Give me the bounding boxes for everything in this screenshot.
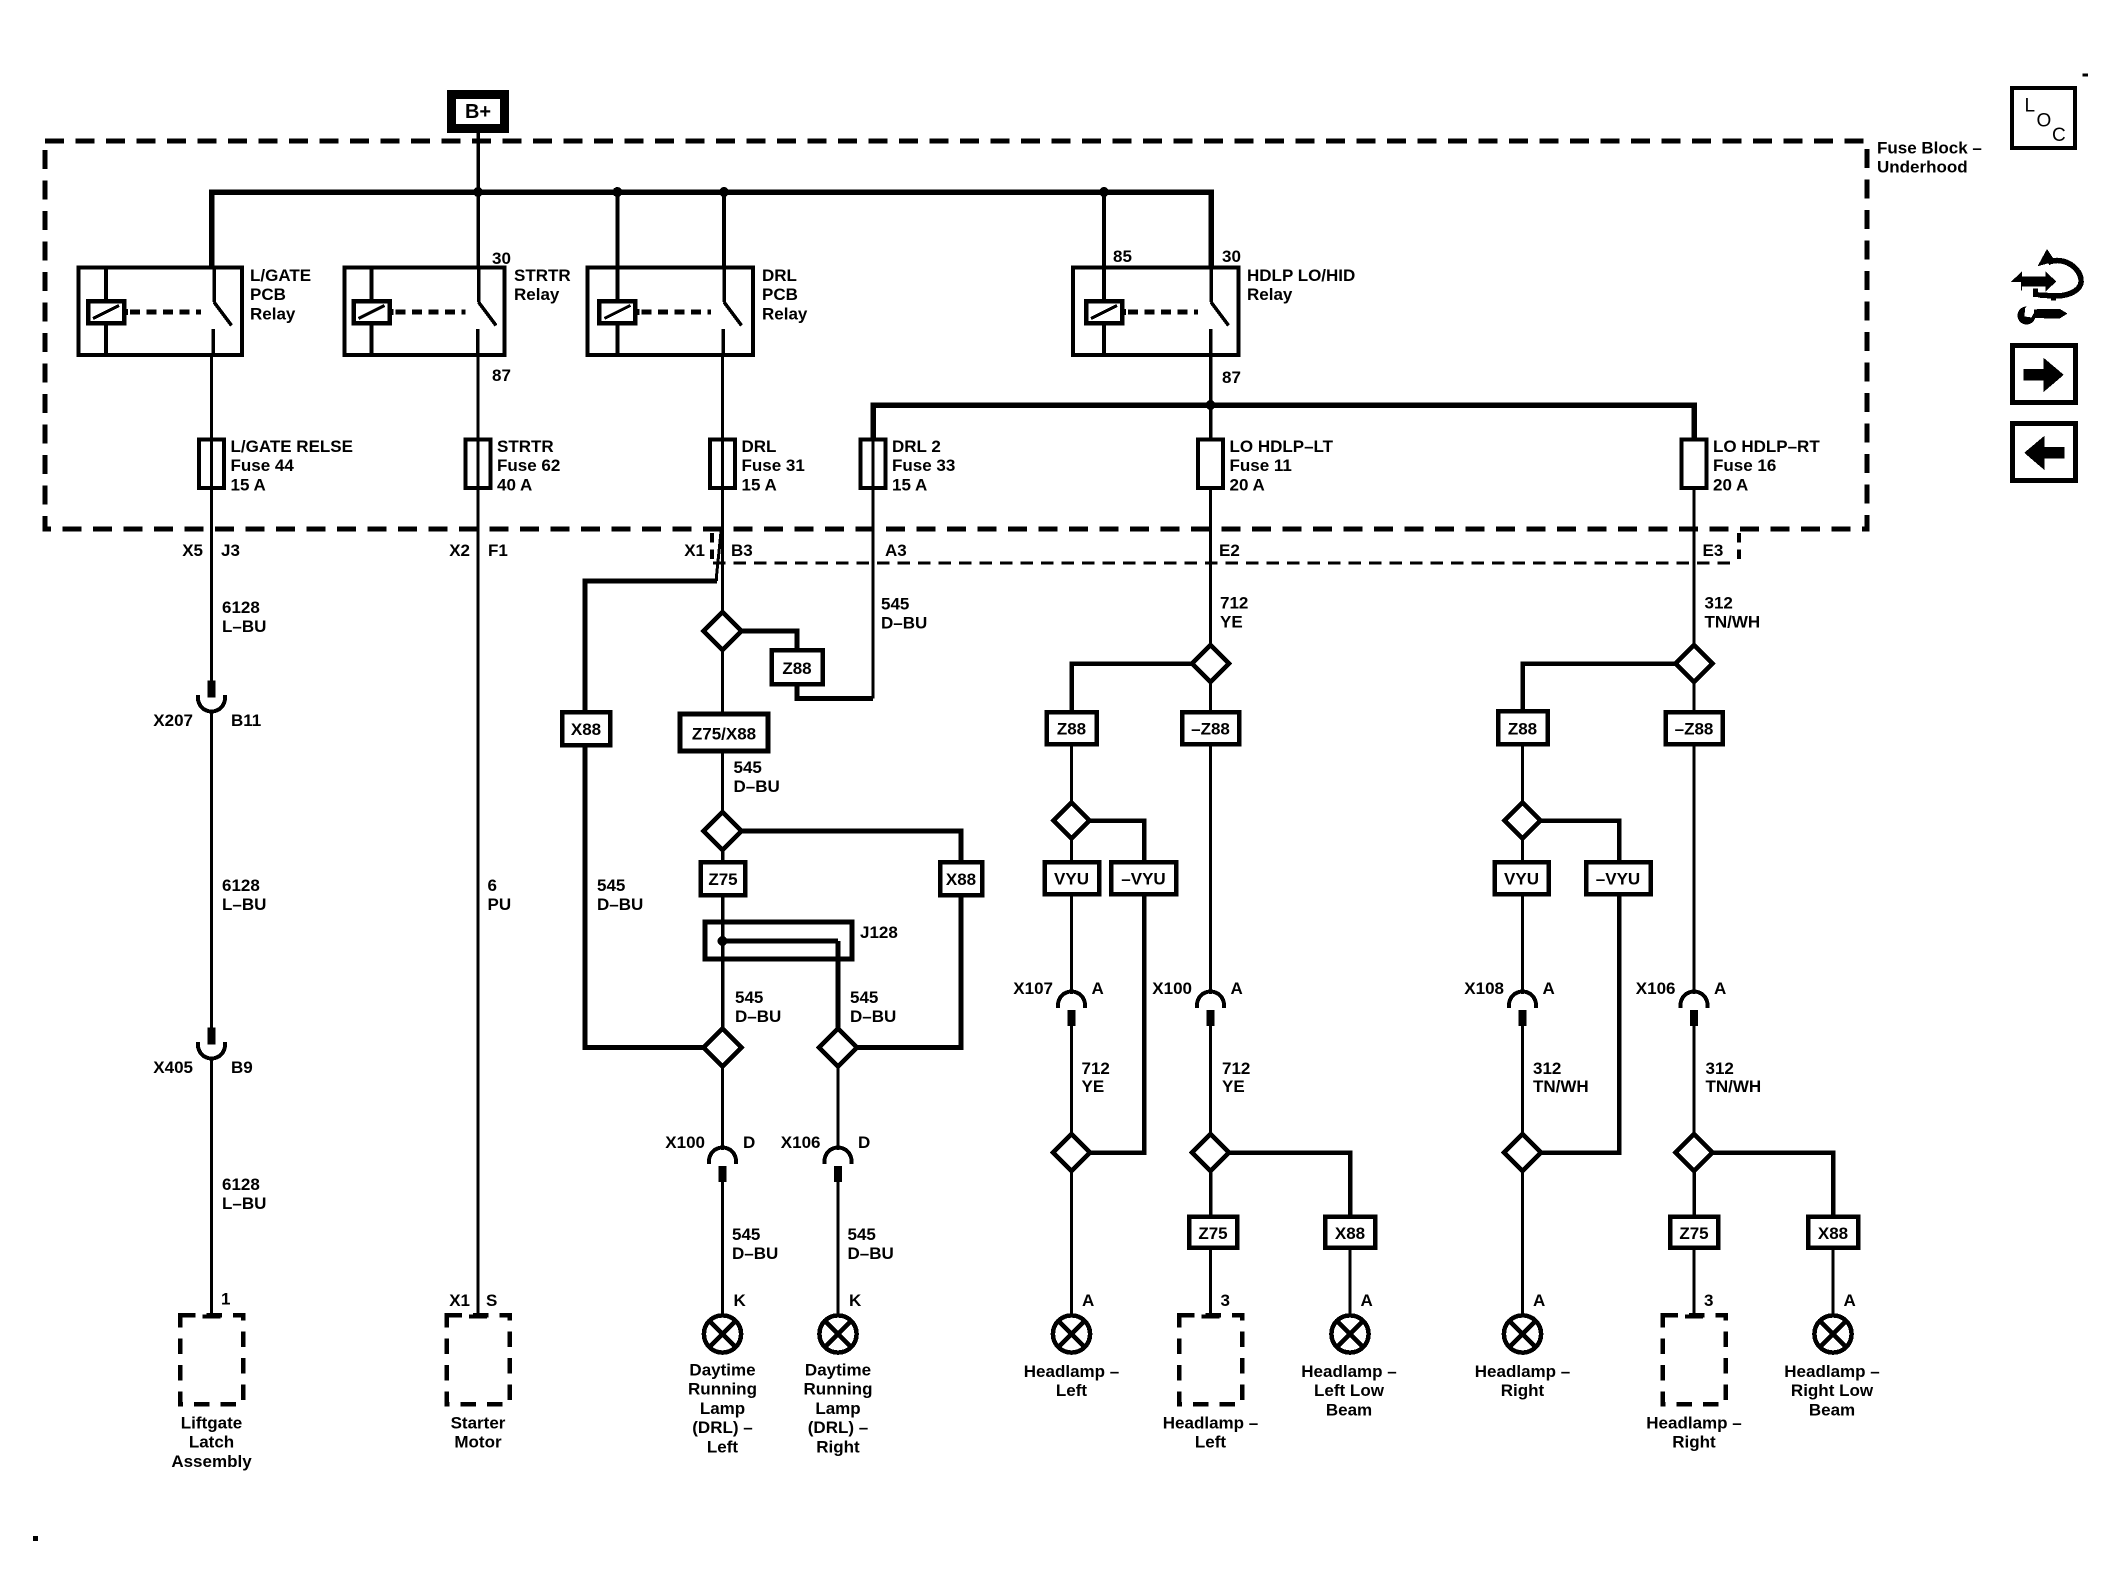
fuse 33 DRL 2 (861, 437, 956, 494)
wire label 545 D-BU (left leg) (735, 988, 781, 1026)
wire Z75/X88 to splice S2 (721, 751, 724, 812)
connector X107 pin A (1013, 979, 1103, 1026)
svg-text:X106: X106 (781, 1133, 821, 1152)
svg-text:LO HDLP–LT: LO HDLP–LT (1230, 437, 1334, 456)
svg-text:Z88: Z88 (1057, 720, 1086, 739)
svg-text:(DRL) –: (DRL) – (692, 1418, 752, 1437)
connector mark X1 dashes (710, 533, 714, 559)
wire S10 to -VYU (right) (1541, 821, 1620, 863)
svg-text:545: 545 (735, 988, 763, 1007)
wire S1 to Z88 jog (742, 631, 798, 650)
lamp Headlamp Right (1475, 1315, 1570, 1400)
svg-text:312: 312 (1533, 1059, 1561, 1078)
wire label 6128 L-BU (lower) (222, 1175, 266, 1213)
svg-text:Relay: Relay (1247, 285, 1293, 304)
svg-text:Lamp: Lamp (700, 1399, 745, 1418)
wire bus87 horizontal (873, 405, 1694, 440)
wire Z75 to headlamp right connector (1693, 1248, 1696, 1316)
svg-text:Left: Left (1056, 1381, 1088, 1400)
svg-text:Fuse 33: Fuse 33 (892, 456, 955, 475)
svg-text:S: S (486, 1291, 497, 1310)
svg-text:545: 545 (850, 988, 878, 1007)
splice diamond S3 (704, 1029, 742, 1067)
splice box Z88 (DRL) (772, 650, 823, 684)
svg-text:X100: X100 (665, 1133, 705, 1152)
pin 85 HDLP relay (1113, 247, 1132, 266)
svg-text:A: A (1533, 1291, 1545, 1310)
splice pack J128 box (705, 922, 852, 959)
pin 30 HDLP relay (1222, 247, 1241, 266)
junction dot at B+ (473, 187, 483, 197)
fuse 31 DRL (710, 437, 805, 494)
splice diamond S4 (819, 1029, 857, 1067)
wire X88 left to splice S3 (585, 745, 704, 1048)
pin A right low beam (1844, 1291, 1856, 1310)
svg-text:Beam: Beam (1809, 1400, 1855, 1419)
splice box Z75 (E3) (1670, 1217, 1718, 1248)
wire X88 to right low beam lamp (1832, 1248, 1835, 1316)
pin A left low beam (1361, 1291, 1373, 1310)
wire L/GATE relay to X207 (210, 355, 213, 681)
lamp Headlamp Left (1024, 1315, 1119, 1400)
inner connector dashed line (713, 562, 1732, 565)
pin 87 STRTR (492, 366, 511, 385)
wire X107 to splice S7 (1070, 1026, 1073, 1135)
svg-text:A: A (1844, 1291, 1856, 1310)
pin labels X1 S starter (449, 1291, 497, 1310)
lamp Headlamp Left Low Beam (1301, 1315, 1396, 1419)
svg-text:DRL: DRL (762, 266, 797, 285)
wire X88 to left low beam lamp (1349, 1248, 1352, 1316)
splice box -VYU (left) (1111, 862, 1176, 894)
splice diamond S2 (704, 812, 742, 850)
connector X106 pin D (781, 1133, 870, 1182)
wire S8 to X88 (left low beam) (1229, 1153, 1350, 1217)
wire S3 to X100 pin D (721, 1067, 724, 1151)
icon arrow left box (2013, 424, 2076, 481)
wire -VYU to S11 (1541, 894, 1619, 1153)
wire X207 to X405 (210, 712, 213, 1028)
wire S5 to -Z88 (1209, 682, 1212, 712)
wire branch to X88 left (585, 581, 717, 712)
wire X108 to splice S11 (1521, 1026, 1524, 1135)
splice diamond S5 (1192, 645, 1229, 682)
wire fuse 16 to splice S9 (1693, 488, 1696, 645)
svg-text:Relay: Relay (250, 304, 296, 323)
splice diamond S10 (1505, 803, 1541, 839)
fuse 62 STRTR (466, 437, 561, 494)
wire S9 to -Z88 (E3) (1693, 682, 1696, 712)
wire X100A to splice S8 (1209, 1026, 1212, 1134)
relay HDLP LO/HID Relay (1073, 266, 1356, 355)
wire label 545 D-BU (right leg) (850, 988, 896, 1026)
splice box -VYU (right) (1586, 862, 1651, 894)
wire DRL relay to splice S1 (721, 355, 724, 612)
connector X405 B9 (153, 1028, 252, 1078)
splice box X88 (right low beam) (1808, 1217, 1858, 1248)
wire S6 to -VYU (1090, 821, 1145, 863)
wire label 6128 L-BU (middle) (222, 876, 266, 914)
wire S8 to Z75 (E2) (1209, 1171, 1213, 1217)
svg-text:312: 312 (1705, 594, 1733, 613)
splice box Z75 (701, 862, 746, 895)
svg-text:545: 545 (597, 876, 625, 895)
wire label 545 D-BU (to left lamp) (732, 1225, 778, 1263)
fuse block underhood dashed border (45, 141, 1867, 529)
pin labels X5 J3 (182, 541, 240, 560)
pin label E2 (1219, 541, 1240, 560)
svg-text:Fuse 31: Fuse 31 (742, 456, 805, 475)
wire S2 to X88 branch (742, 831, 962, 862)
svg-text:87: 87 (1222, 368, 1241, 387)
fuse 16 LO HDLP-RT (1682, 437, 1821, 494)
svg-text:Assembly: Assembly (171, 1452, 252, 1471)
wire label 545 D-BU (A3) (881, 595, 927, 633)
svg-text:B11: B11 (231, 711, 261, 730)
splice box VYU (right) (1495, 862, 1549, 894)
splice diamond S1 (704, 612, 742, 650)
wire S10 to VYU (right) (1521, 839, 1524, 863)
svg-text:L/GATE: L/GATE (250, 266, 311, 285)
connector X108 pin A (1464, 979, 1554, 1026)
svg-text:D–BU: D–BU (735, 1007, 781, 1026)
svg-text:L/GATE RELSE: L/GATE RELSE (231, 437, 353, 456)
lamp Daytime Running Lamp DRL Right (804, 1315, 873, 1456)
wire bus30 horizontal (212, 192, 1212, 268)
svg-text:–VYU: –VYU (1121, 870, 1165, 889)
connector X207 B11 (153, 681, 261, 731)
wire Z88 to splice S6 (1070, 744, 1073, 803)
pin K left (734, 1291, 747, 1310)
svg-text:L–BU: L–BU (222, 1194, 266, 1213)
wire STRTR relay to starter motor (477, 355, 480, 1315)
svg-text:85: 85 (1113, 247, 1132, 266)
icon arrow right box (2013, 346, 2076, 403)
wire VYU to X108 (1521, 894, 1524, 994)
wire label 6128 L-BU (upper) (222, 598, 266, 636)
svg-text:30: 30 (492, 249, 511, 268)
icon vehicle with arrows and wrench (2012, 250, 2081, 325)
lamp Headlamp Right Low Beam (1784, 1315, 1879, 1419)
svg-text:6: 6 (488, 876, 497, 895)
connector X100 pin D (665, 1133, 755, 1182)
pin 3 headlamp left (1221, 1291, 1230, 1310)
svg-text:–Z88: –Z88 (1191, 720, 1230, 739)
wire S2 to Z75 (721, 850, 725, 862)
svg-text:X107: X107 (1013, 979, 1053, 998)
splice diamond S12 (1676, 1134, 1713, 1171)
splice diamond S8 (1192, 1134, 1229, 1171)
svg-text:Headlamp –: Headlamp – (1163, 1414, 1258, 1433)
svg-text:VYU: VYU (1054, 870, 1089, 889)
svg-text:B+: B+ (465, 101, 491, 123)
svg-text:40 A: 40 A (497, 475, 532, 494)
wire VYU to X107 (1070, 894, 1073, 994)
svg-text:D–BU: D–BU (597, 895, 643, 914)
J128 junction dot (718, 936, 728, 946)
svg-text:Right: Right (1672, 1433, 1716, 1452)
pin labels X1 B3 (684, 541, 753, 560)
wire B+ down to bus (476, 133, 480, 268)
splice diamond S7 (1053, 1134, 1090, 1171)
svg-text:D–BU: D–BU (881, 614, 927, 633)
wire HDLP switch to bus87 (1209, 355, 1213, 440)
wire label 312 TN/WH (E3 lower) (1706, 1059, 1762, 1096)
wire S9 to Z88 (headlamp right) (1523, 664, 1676, 712)
wire label 545 D-BU (to right lamp) (848, 1225, 894, 1263)
wire label 545 D-BU (X88 branch) (597, 876, 643, 914)
svg-text:87: 87 (492, 366, 511, 385)
wire jog B3 lead (717, 527, 722, 581)
splice diamond S9 (1676, 645, 1713, 682)
wire J128 right leg down (836, 941, 841, 1029)
svg-text:3: 3 (1221, 1291, 1230, 1310)
svg-text:1: 1 (221, 1290, 230, 1309)
junction dot at HDLP coil (1099, 187, 1109, 197)
svg-text:Z75: Z75 (708, 870, 737, 889)
splice box Z88 (HL left) (1047, 712, 1097, 744)
svg-text:Latch: Latch (189, 1433, 234, 1452)
pin A headlamp right (1533, 1291, 1545, 1310)
pin A headlamp left (1082, 1291, 1094, 1310)
pin 30 STRTR (492, 249, 511, 268)
wire A3 column (DRL 2) (872, 407, 875, 699)
svg-text:Z75/X88: Z75/X88 (692, 725, 756, 744)
wire fuse 11 to splice S5 (1209, 488, 1212, 645)
wire Z75 to headlamp left connector (1209, 1248, 1212, 1316)
wire label 312 TN/WH (X108) (1533, 1059, 1589, 1096)
svg-text:Relay: Relay (514, 285, 560, 304)
svg-text:Daytime: Daytime (689, 1361, 755, 1380)
wire J128 left leg down (721, 941, 725, 1029)
svg-text:K: K (734, 1291, 747, 1310)
svg-text:Z75: Z75 (1679, 1224, 1708, 1243)
fuse 11 LO HDLP-LT (1198, 437, 1334, 494)
svg-text:Fuse 62: Fuse 62 (497, 456, 560, 475)
wire X88 down to splice S4 (858, 895, 962, 1048)
svg-text:20 A: 20 A (1713, 475, 1748, 494)
junction dot bus87 (1206, 400, 1216, 410)
pin 3 headlamp right (1704, 1291, 1713, 1310)
svg-text:Fuse Block –: Fuse Block – (1877, 139, 1982, 158)
svg-text:A: A (1082, 1291, 1094, 1310)
pin label E3 (1703, 541, 1724, 560)
relay DRL PCB Relay (588, 266, 808, 355)
wire S5 to Z88 (headlamp left) (1072, 664, 1193, 713)
lamp Daytime Running Lamp DRL Left (688, 1315, 757, 1456)
stray dot bottom left (33, 1536, 38, 1541)
icon stray dash top right (2083, 74, 2089, 77)
svg-text:STRTR: STRTR (514, 266, 571, 285)
junction dot at DRL coil (612, 187, 622, 197)
svg-text:X88: X88 (571, 720, 601, 739)
svg-text:VYU: VYU (1504, 870, 1539, 889)
svg-text:YE: YE (1222, 1077, 1245, 1096)
wire S12 to Z75 (E3) (1692, 1171, 1696, 1217)
splice box VYU (1045, 862, 1100, 894)
wire -VYU to S7 (1090, 894, 1144, 1153)
wire Z88 to splice S10 (1521, 744, 1524, 803)
wire S11 to headlamp right (1521, 1171, 1524, 1316)
svg-text:B3: B3 (731, 541, 753, 560)
wire X106A to splice S12 (1693, 1026, 1696, 1134)
svg-text:Headlamp –: Headlamp – (1301, 1362, 1396, 1381)
svg-text:545: 545 (881, 595, 909, 614)
svg-text:B9: B9 (231, 1058, 253, 1077)
splice diamond S6 (1054, 803, 1090, 839)
splice box Z88 (HL right) (1498, 711, 1548, 744)
wire drop to HDLP relay coil (1102, 192, 1106, 268)
svg-text:Z88: Z88 (782, 659, 811, 678)
svg-text:X2: X2 (449, 541, 470, 560)
svg-text:X88: X88 (1335, 1224, 1365, 1243)
svg-text:L–BU: L–BU (222, 617, 266, 636)
svg-text:TN/WH: TN/WH (1533, 1077, 1589, 1096)
svg-text:TN/WH: TN/WH (1705, 613, 1761, 632)
junction dot at DRL switch (719, 187, 729, 197)
svg-text:DRL 2: DRL 2 (892, 437, 941, 456)
wire drop to DRL relay coil (615, 192, 619, 268)
wire S6 to VYU (1070, 839, 1073, 863)
svg-text:–VYU: –VYU (1596, 870, 1640, 889)
svg-text:20 A: 20 A (1230, 475, 1265, 494)
svg-text:Fuse 11: Fuse 11 (1230, 456, 1292, 475)
svg-text:DRL: DRL (742, 437, 777, 456)
svg-text:YE: YE (1220, 613, 1243, 632)
svg-text:D–BU: D–BU (734, 777, 780, 796)
svg-text:712: 712 (1222, 1059, 1250, 1078)
component box Starter Motor (447, 1315, 510, 1452)
svg-text:X1: X1 (684, 541, 705, 560)
svg-text:Relay: Relay (762, 304, 808, 323)
svg-text:L–BU: L–BU (222, 895, 266, 914)
connector X106 pin A (1636, 979, 1726, 1026)
svg-text:YE: YE (1082, 1077, 1105, 1096)
svg-text:Lamp: Lamp (815, 1399, 860, 1418)
svg-text:A: A (1231, 979, 1243, 998)
svg-text:X108: X108 (1464, 979, 1504, 998)
svg-text:30: 30 (1222, 247, 1241, 266)
svg-text:D–BU: D–BU (850, 1007, 896, 1026)
wire label 712 YE (E2 upper) (1220, 594, 1248, 632)
svg-text:A: A (1092, 979, 1104, 998)
svg-text:C: C (2052, 125, 2066, 146)
wire X106 to DRL right lamp (837, 1182, 840, 1316)
svg-text:D–BU: D–BU (848, 1244, 894, 1263)
svg-text:X88: X88 (946, 870, 976, 889)
wire label 545 D-BU (below Z75/X88) (734, 758, 780, 796)
svg-text:X106: X106 (1636, 979, 1676, 998)
svg-text:Running: Running (688, 1380, 757, 1399)
svg-text:545: 545 (734, 758, 762, 777)
svg-text:Running: Running (804, 1380, 873, 1399)
svg-text:15 A: 15 A (231, 475, 266, 494)
svg-text:X207: X207 (153, 711, 193, 730)
wire -Z88 to X100 pin A (1209, 744, 1212, 994)
svg-text:HDLP LO/HID: HDLP LO/HID (1247, 266, 1355, 285)
svg-text:K: K (849, 1291, 862, 1310)
svg-text:X405: X405 (153, 1058, 193, 1077)
component box Liftgate Latch Assembly (171, 1315, 252, 1471)
svg-text:3: 3 (1704, 1291, 1713, 1310)
svg-text:D: D (743, 1133, 755, 1152)
svg-text:712: 712 (1220, 594, 1248, 613)
splice box X88 (left branch) (562, 712, 610, 745)
wire S7 to headlamp left (1070, 1171, 1073, 1316)
svg-text:F1: F1 (488, 541, 508, 560)
label Fuse Block - Underhood (1877, 139, 1982, 177)
svg-text:X5: X5 (182, 541, 203, 560)
svg-text:15 A: 15 A (742, 475, 777, 494)
wire S12 to X88 (right low beam) (1713, 1153, 1834, 1217)
svg-text:X88: X88 (1818, 1224, 1848, 1243)
svg-text:Fuse 16: Fuse 16 (1713, 456, 1776, 475)
splice box X88 (left low beam) (1325, 1217, 1375, 1248)
svg-text:Right Low: Right Low (1791, 1381, 1874, 1400)
pin label A3 (885, 541, 907, 560)
svg-text:X1: X1 (449, 1291, 470, 1310)
svg-text:E3: E3 (1703, 541, 1724, 560)
wire S4 to X106 pin D (837, 1067, 840, 1151)
svg-text:312: 312 (1706, 1059, 1734, 1078)
svg-text:Right: Right (1501, 1381, 1545, 1400)
wire Z88 to A3 column (797, 684, 873, 699)
svg-text:PCB: PCB (250, 285, 286, 304)
splice diamond S11 (1504, 1134, 1541, 1171)
splice box -Z88 (E3) (1666, 712, 1723, 744)
svg-text:Z88: Z88 (1508, 720, 1537, 739)
relay L/GATE PCB Relay (79, 266, 312, 355)
svg-text:Underhood: Underhood (1877, 158, 1968, 177)
wire X100 to DRL left lamp (721, 1182, 724, 1316)
svg-text:Starter: Starter (451, 1414, 506, 1433)
pin 87 HDLP relay (1222, 368, 1241, 387)
svg-text:Left: Left (707, 1437, 739, 1456)
svg-text:Right: Right (816, 1437, 860, 1456)
connector mark E3 dashes (1737, 533, 1741, 559)
component box Headlamp Right (1646, 1315, 1741, 1452)
svg-text:15 A: 15 A (892, 475, 927, 494)
pin labels X2 F1 (449, 541, 508, 560)
svg-text:L: L (2025, 96, 2036, 117)
svg-text:A: A (1714, 979, 1726, 998)
svg-text:Left Low: Left Low (1314, 1381, 1385, 1400)
svg-text:Headlamp –: Headlamp – (1784, 1362, 1879, 1381)
svg-text:Headlamp –: Headlamp – (1646, 1414, 1741, 1433)
svg-text:D: D (858, 1133, 870, 1152)
svg-text:X100: X100 (1152, 979, 1192, 998)
pin 1 liftgate (221, 1290, 230, 1309)
svg-text:Liftgate: Liftgate (181, 1414, 242, 1433)
svg-text:545: 545 (848, 1225, 876, 1244)
component box Headlamp Left (1163, 1315, 1258, 1452)
svg-text:Left: Left (1195, 1433, 1227, 1452)
splice box Z75/X88 (680, 714, 768, 751)
svg-text:–Z88: –Z88 (1675, 720, 1714, 739)
J128 internal bus bar (723, 939, 839, 944)
svg-text:Headlamp –: Headlamp – (1475, 1362, 1570, 1381)
relay STRTR Relay (345, 266, 571, 355)
svg-text:Daytime: Daytime (805, 1361, 871, 1380)
svg-text:A3: A3 (885, 541, 907, 560)
wire -Z88 to X106 pin A (1693, 744, 1696, 994)
wire S1 to Z75/X88 (721, 650, 724, 714)
svg-text:Headlamp –: Headlamp – (1024, 1362, 1119, 1381)
wire label 6 PU (488, 876, 512, 914)
wire drop to DRL relay switch (722, 192, 726, 268)
svg-text:PU: PU (488, 895, 512, 914)
svg-text:PCB: PCB (762, 285, 798, 304)
